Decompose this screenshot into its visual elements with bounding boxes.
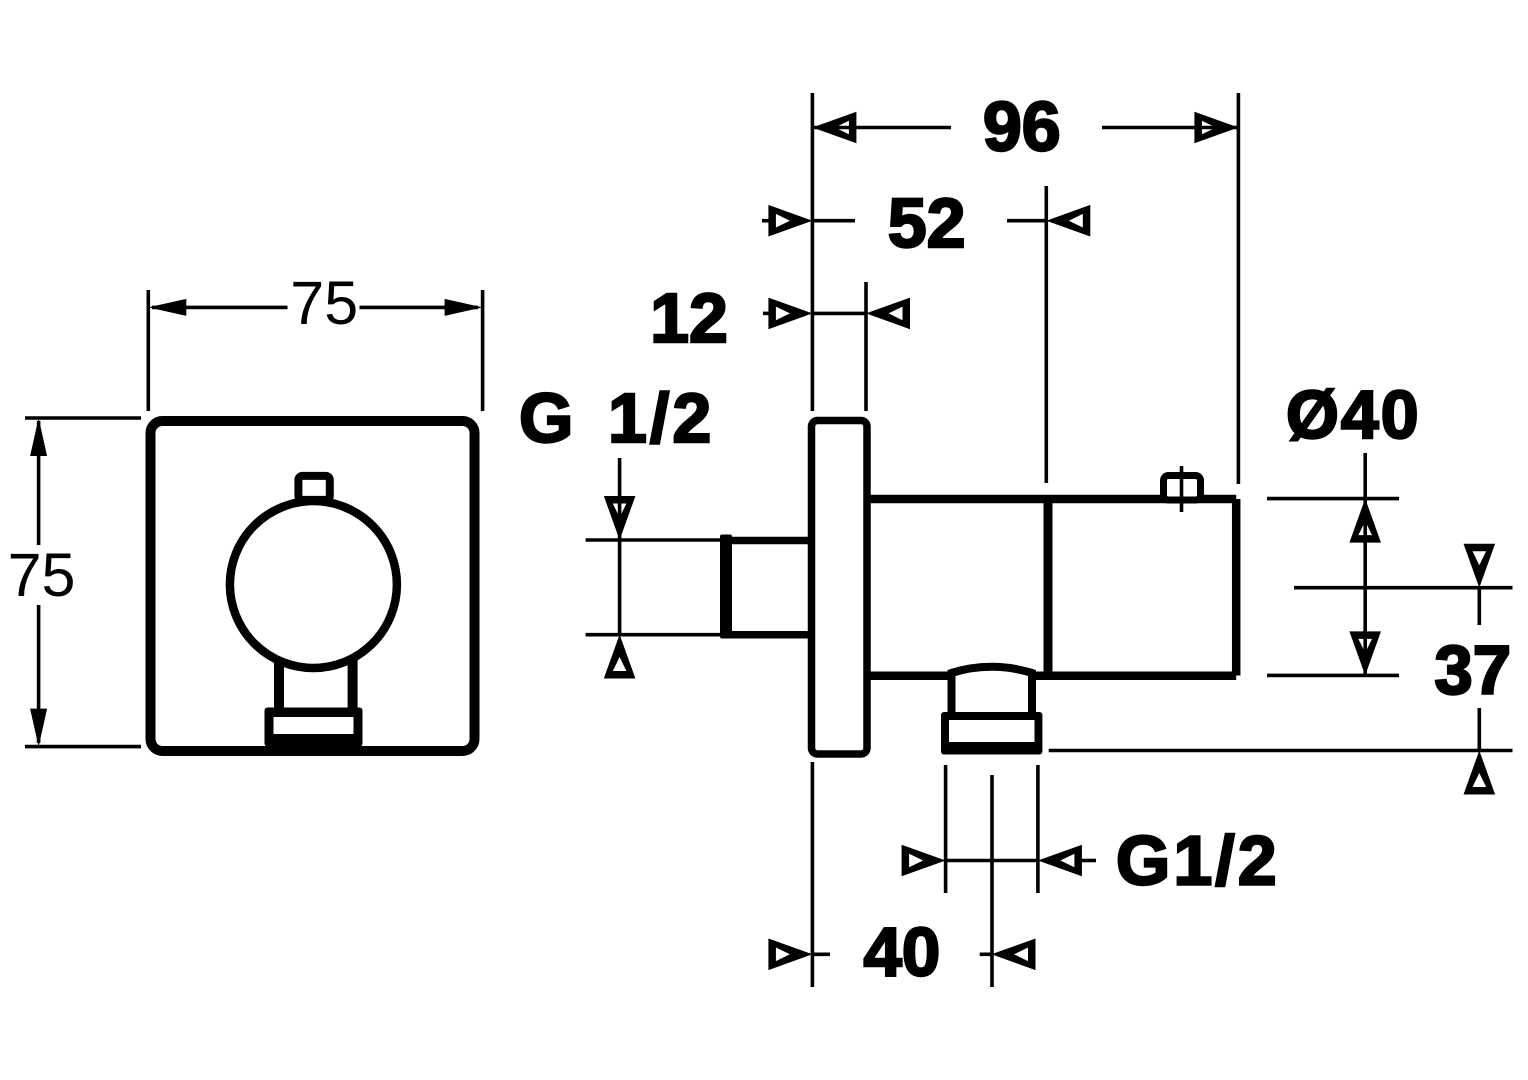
- svg-text:96: 96: [983, 88, 1061, 166]
- svg-text:G: G: [519, 379, 573, 457]
- svg-text:40: 40: [864, 914, 941, 991]
- svg-text:75: 75: [290, 269, 358, 337]
- svg-text:52: 52: [888, 184, 966, 262]
- svg-text:1/2: 1/2: [608, 379, 714, 457]
- svg-text:Ø40: Ø40: [1286, 377, 1421, 453]
- svg-text:12: 12: [650, 279, 728, 357]
- svg-text:G1/2: G1/2: [1116, 822, 1280, 900]
- svg-text:75: 75: [8, 541, 76, 609]
- svg-text:37: 37: [1434, 632, 1511, 709]
